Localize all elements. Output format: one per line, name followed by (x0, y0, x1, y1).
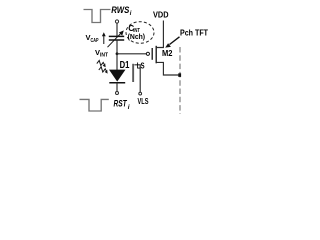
terminal RST node (116, 92, 119, 95)
capacitor C_INT (108, 30, 125, 47)
junction drain to data line (178, 73, 181, 77)
transistor M2 (Pch TFT) (146, 21, 179, 76)
light shield LS plate (132, 64, 134, 82)
svg-text:i: i (128, 104, 130, 111)
arrow V_CAP (102, 32, 106, 44)
wire V_INT to M2 gate (117, 53, 146, 55)
label C_INT (128, 24, 140, 34)
svg-text:(Nch): (Nch) (128, 32, 146, 41)
svg-text:D1: D1 (120, 60, 130, 71)
dashed ellipse C_INT callout (126, 22, 154, 44)
svg-text:INT: INT (100, 53, 108, 59)
svg-text:RWS: RWS (111, 5, 129, 15)
node V_INT junction (116, 52, 119, 55)
svg-text:Pch TFT: Pch TFT (180, 28, 209, 38)
terminal VLS (139, 92, 142, 95)
photodiode D1 (109, 70, 126, 92)
svg-text:LS: LS (137, 61, 145, 71)
label V_INT (95, 48, 108, 59)
data line (dashed) (179, 47, 181, 114)
svg-text:VDD: VDD (153, 10, 169, 20)
wire capacitor bottom to V_INT node (116, 40, 118, 54)
svg-text:RST: RST (114, 98, 128, 109)
waveform RST pulse (80, 99, 109, 111)
wire LS electrode (134, 65, 140, 92)
wire V_INT node to photodiode (116, 54, 118, 71)
svg-text:VLS: VLS (138, 96, 149, 106)
waveform RWS pulse (84, 10, 111, 23)
svg-text:CAP: CAP (91, 38, 99, 44)
svg-text:M2: M2 (162, 49, 173, 58)
label RST_i (114, 98, 130, 111)
label V_CAP (86, 33, 99, 44)
terminal RWS node (115, 20, 118, 23)
light arrows (97, 60, 108, 73)
label RWS_i (111, 5, 131, 17)
arrow Pch TFT pointer (165, 37, 179, 48)
wire RWS terminal to capacitor (116, 23, 118, 36)
